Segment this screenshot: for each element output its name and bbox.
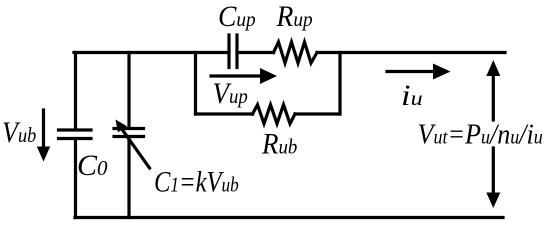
svg-text:C1=kVub: C1=kVub bbox=[154, 165, 239, 198]
wire top right horizontal bbox=[317, 51, 505, 54]
capacitor Cup plates bbox=[229, 35, 237, 68]
capacitor C1 variable arrow shaft bbox=[122, 129, 150, 168]
arrow Vup shaft bbox=[211, 74, 262, 77]
resistor Rub bbox=[253, 105, 296, 124]
wire second vertical lower bbox=[127, 137, 130, 218]
arrowhead Vut up bbox=[486, 60, 500, 76]
arrow iu shaft bbox=[387, 70, 435, 73]
arrowhead Vup bbox=[260, 68, 277, 84]
arrowhead Vut down bbox=[486, 193, 500, 209]
label Vup bbox=[213, 78, 248, 111]
label Rup bbox=[276, 0, 313, 33]
label Vut bbox=[418, 117, 543, 150]
arrowhead Vub bbox=[37, 147, 50, 162]
wire top left horizontal bbox=[74, 51, 229, 54]
svg-text:Vup: Vup bbox=[213, 78, 248, 111]
arrow Vut lower shaft bbox=[492, 148, 495, 194]
wire network right vertical bbox=[338, 53, 341, 115]
wire network bottom right bbox=[295, 112, 340, 115]
wire left vertical upper bbox=[74, 53, 77, 130]
label Cup bbox=[218, 0, 256, 33]
arrow Vut upper shaft bbox=[492, 72, 495, 120]
svg-text:Rup: Rup bbox=[276, 0, 313, 33]
label Rub bbox=[261, 128, 297, 161]
resistor Rup bbox=[274, 42, 318, 63]
label C1=kVub bbox=[154, 165, 239, 198]
arrow Vub shaft bbox=[42, 110, 45, 148]
svg-text:Cup: Cup bbox=[218, 0, 256, 33]
svg-text:C0: C0 bbox=[77, 149, 108, 182]
wire top mid (between Cup and Rup) bbox=[237, 51, 274, 54]
label C0 bbox=[77, 149, 108, 182]
svg-text:Vub: Vub bbox=[2, 116, 36, 149]
capacitor C0 bbox=[59, 130, 92, 139]
capacitor C1 (variable) plates bbox=[114, 129, 144, 137]
label Vub bbox=[2, 116, 36, 149]
arrowhead C1 variable bbox=[116, 120, 127, 133]
wire second vertical upper bbox=[127, 53, 130, 128]
label iu bbox=[401, 78, 423, 111]
arrowhead iu bbox=[433, 64, 451, 80]
wire left vertical lower bbox=[74, 140, 77, 218]
svg-text:Vut=Pu/nu/iu: Vut=Pu/nu/iu bbox=[418, 117, 543, 150]
wire network left vertical bbox=[194, 53, 197, 115]
wire network bottom left bbox=[196, 112, 253, 115]
svg-text:Rub: Rub bbox=[261, 128, 297, 161]
wire bottom horizontal bbox=[75, 216, 503, 219]
svg-text:iu: iu bbox=[401, 78, 423, 111]
